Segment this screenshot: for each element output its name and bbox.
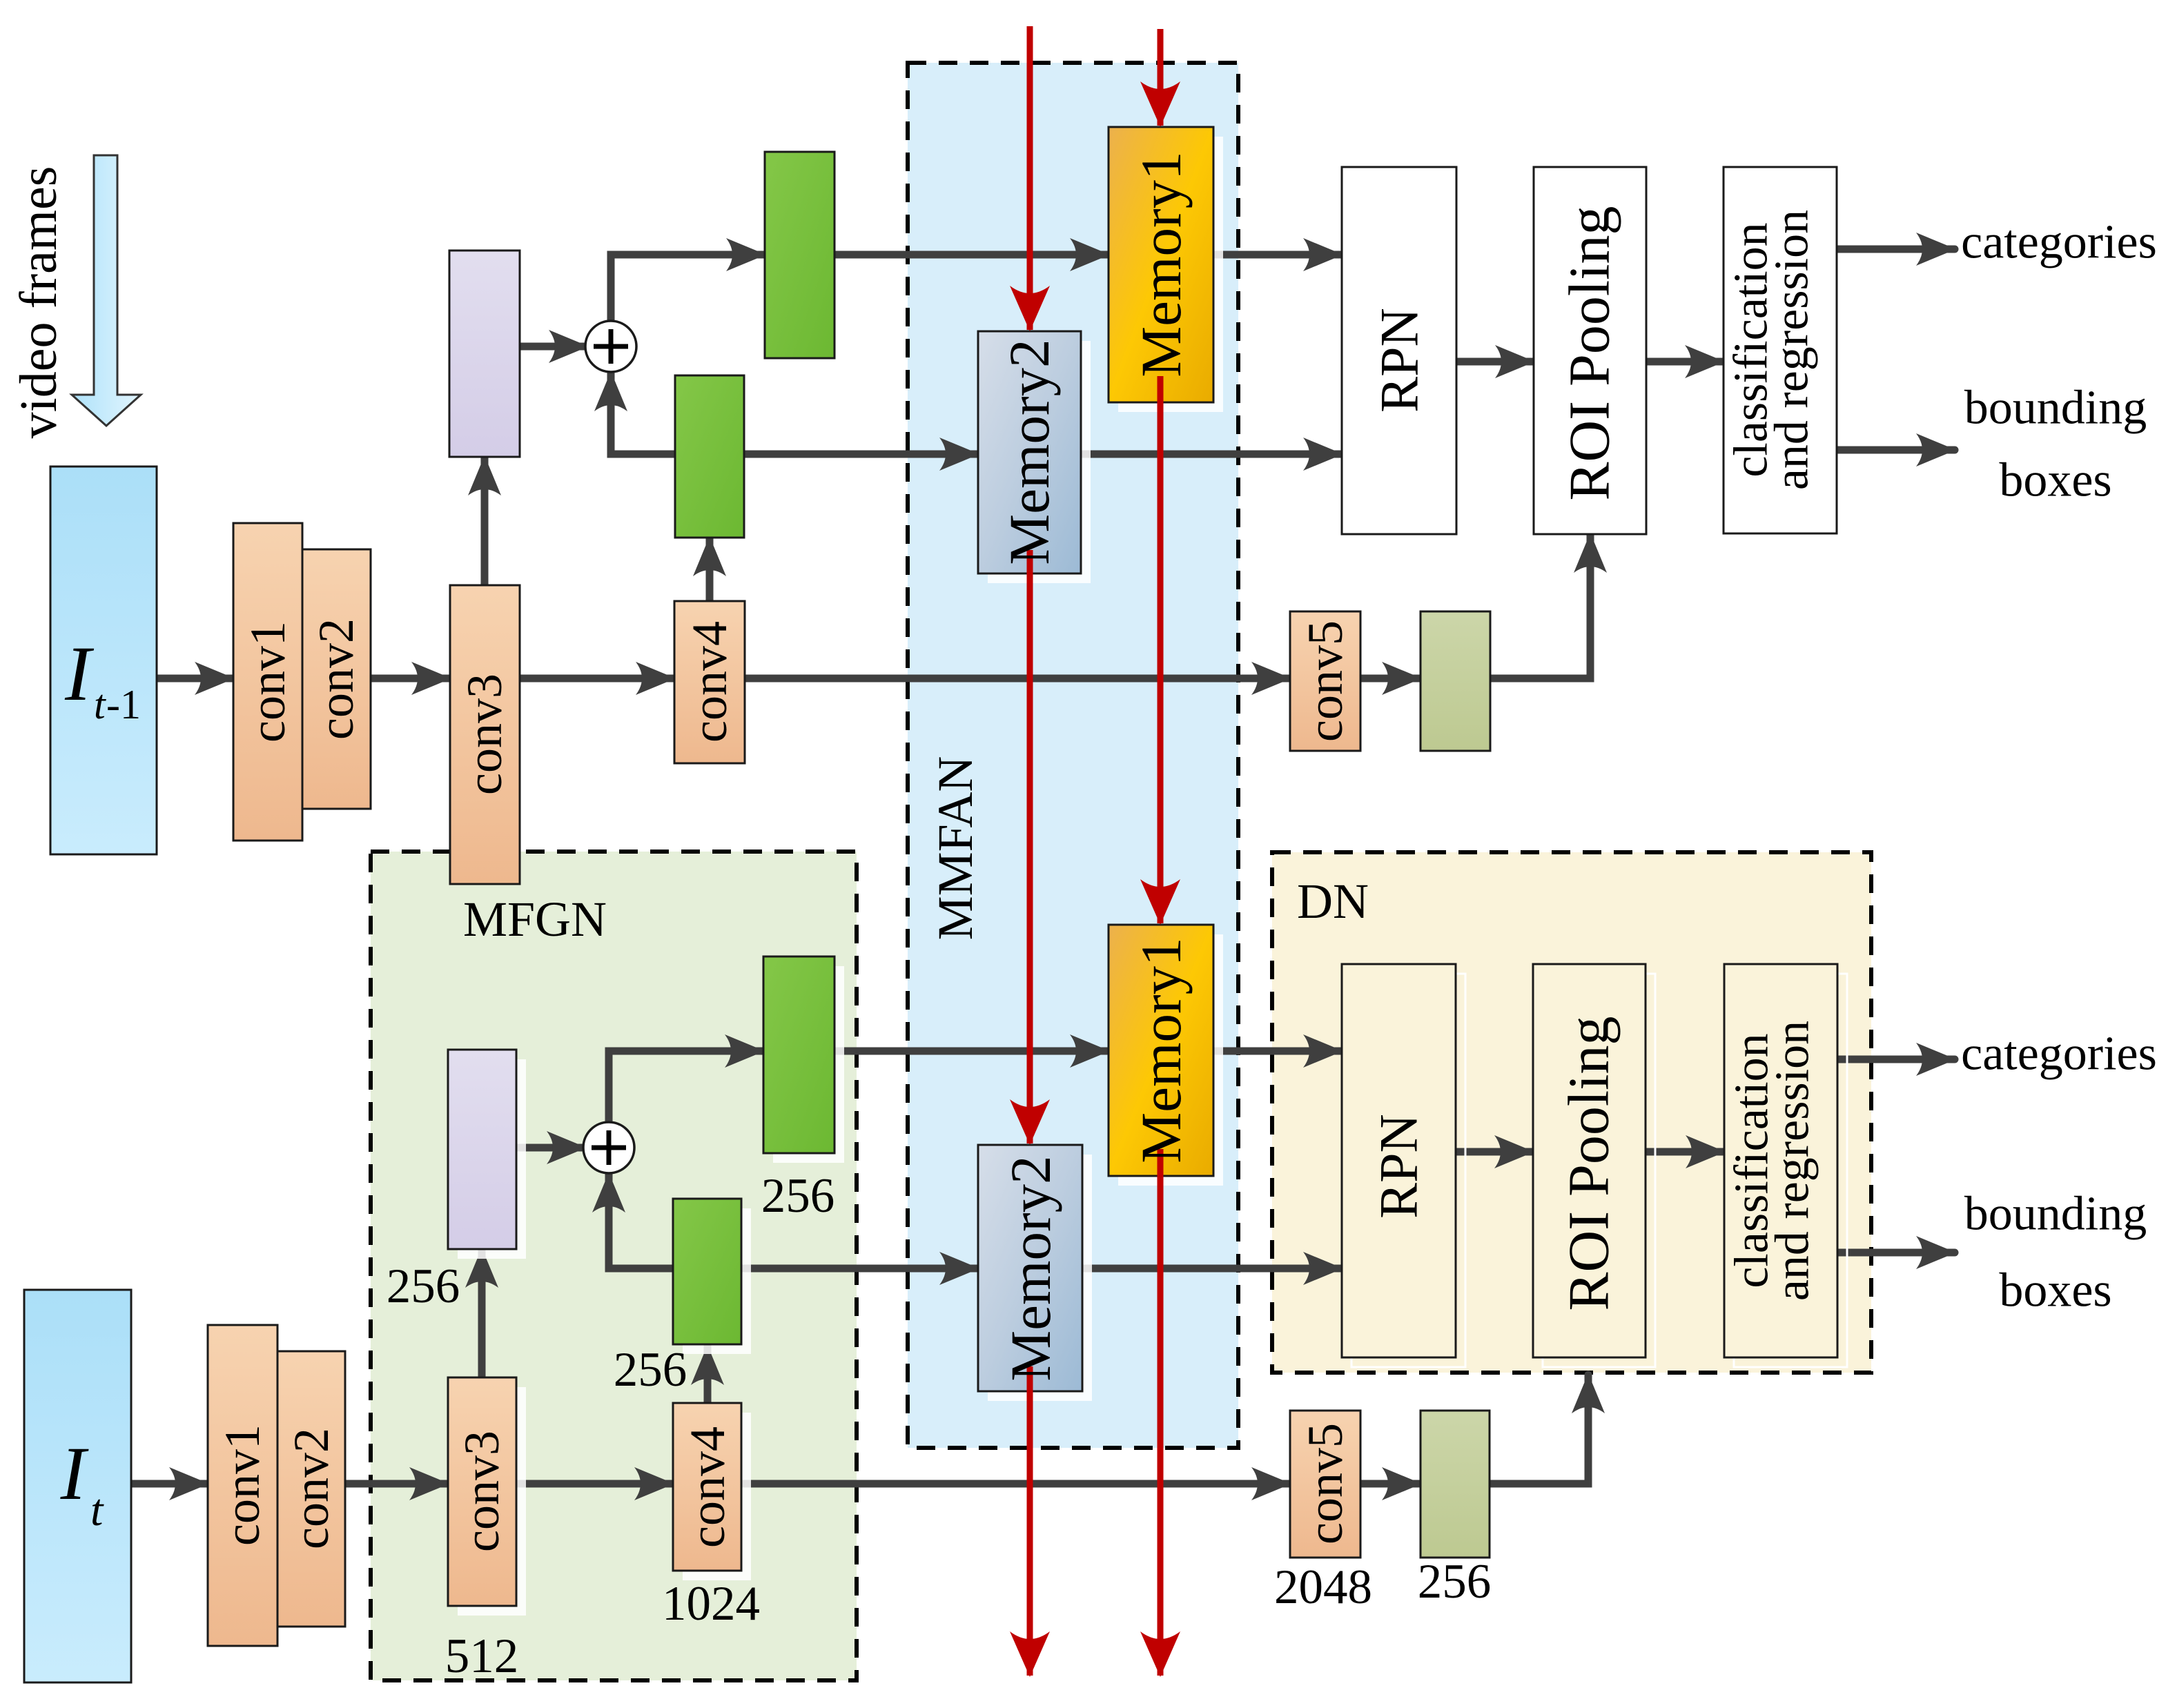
svg-text:DN: DN [1297, 874, 1369, 929]
svg-text:conv4: conv4 [682, 621, 737, 743]
wire green2 elbow up into plus bottom [609, 1174, 673, 1268]
wire classification to categories bottom [1837, 1056, 1955, 1063]
wire Memory2 to RPN top [1081, 451, 1342, 458]
box ROI Pooling top [1534, 167, 1646, 534]
wire plus elbow to green1 top [611, 255, 765, 322]
box ROI Pooling bottom [1533, 964, 1646, 1357]
box conv1 top [233, 523, 302, 841]
box Memory1 top [1109, 127, 1213, 402]
svg-text:512: 512 [445, 1629, 519, 1683]
plus circle bottom [583, 1122, 634, 1173]
wire conv4 to conv5 bottom [741, 1480, 1290, 1488]
wire ROI Pooling to classification bottom [1646, 1148, 1724, 1156]
svg-text:conv2: conv2 [284, 1428, 339, 1549]
box conv5 bottom [1290, 1411, 1360, 1558]
wire plus elbow to green1 bottom [609, 1051, 763, 1123]
plus circle top [585, 321, 636, 372]
svg-text:ROI Pooling: ROI Pooling [1558, 206, 1622, 500]
box I_t-1 [50, 467, 157, 854]
svg-text:conv3: conv3 [457, 674, 512, 795]
svg-text:MMFAN: MMFAN [928, 756, 983, 941]
wire lavender to plus bottom [516, 1144, 585, 1152]
video frames blue arrow [72, 155, 141, 426]
box green2 top [675, 375, 744, 538]
svg-text:conv1: conv1 [215, 1424, 270, 1546]
svg-text:conv4: conv4 [680, 1426, 735, 1548]
box conv3 top [450, 585, 520, 884]
wire conv3 up to lavender bottom [478, 1249, 486, 1377]
svg-text:boxes: boxes [1999, 1264, 2111, 1317]
wire olive elbow up to ROI Pooling top [1490, 534, 1590, 678]
svg-text:conv5: conv5 [1298, 620, 1353, 742]
wire lavender to plus top [520, 343, 587, 351]
wire Memory1 to RPN top [1213, 251, 1342, 259]
wire green2 elbow up into plus top [611, 373, 675, 454]
svg-text:256: 256 [761, 1169, 835, 1223]
svg-text:256: 256 [614, 1343, 687, 1397]
svg-text:256: 256 [1418, 1555, 1492, 1609]
box RPN bottom [1342, 964, 1456, 1357]
white echo green2 bottom [683, 1208, 751, 1354]
svg-text:-1: -1 [106, 682, 141, 727]
white echo lavender bottom [458, 1059, 526, 1259]
red line B segment 3 exit [1158, 1149, 1164, 1676]
box green1 top [765, 152, 834, 358]
box RPN top [1342, 167, 1456, 534]
svg-text:RPN: RPN [1369, 1114, 1429, 1219]
white echo conv3 bottom [458, 1387, 526, 1616]
box olive bottom [1421, 1411, 1490, 1558]
svg-text:conv1: conv1 [240, 621, 295, 743]
wire conv3 to conv4 top [520, 675, 674, 683]
svg-text:MFGN: MFGN [463, 892, 607, 947]
white echo conv4 bottom [683, 1413, 751, 1580]
wire conv2 to conv3 bottom [345, 1480, 448, 1488]
white echo Memory2 bottom [988, 1155, 1092, 1401]
white echo green1 bottom [773, 966, 844, 1163]
box olive top [1421, 611, 1490, 751]
svg-text:Memory2: Memory2 [999, 1155, 1062, 1381]
wire olive elbow up to DN bottom [1490, 1375, 1588, 1484]
svg-text:categories: categories [1961, 1028, 2157, 1081]
svg-text:2048: 2048 [1274, 1560, 1372, 1614]
svg-text:Memory2: Memory2 [997, 339, 1061, 565]
box green1 bottom [763, 956, 834, 1153]
wire green2 to Memory2 top [744, 451, 978, 458]
box Memory2 top [978, 331, 1081, 573]
svg-text:and regression: and regression [1766, 210, 1819, 490]
wire ROI Pooling to classification top [1646, 358, 1724, 366]
wire classification to bounding boxes bottom [1837, 1249, 1955, 1257]
red line A segment 1 into Memory2 top [1027, 26, 1033, 330]
wire Memory2 to RPN bottom [1082, 1265, 1342, 1273]
white echo RPN bottom [1351, 974, 1465, 1367]
box Memory1 bottom [1109, 925, 1213, 1176]
red line A segment 3 exit [1027, 1366, 1033, 1676]
wire classification to bounding boxes top [1837, 446, 1955, 454]
white echo Memory2 top [988, 341, 1091, 583]
region MFGN dashed box [371, 852, 857, 1680]
svg-text:conv5: conv5 [1298, 1423, 1353, 1544]
svg-text:t: t [94, 682, 106, 727]
box I_t [24, 1290, 131, 1682]
svg-text:RPN: RPN [1369, 308, 1429, 413]
box conv3 bottom [448, 1377, 516, 1606]
svg-text:ROI Pooling: ROI Pooling [1557, 1016, 1621, 1311]
wire conv4 up to green2 top [706, 538, 714, 601]
svg-text:boxes: boxes [1999, 454, 2111, 507]
box conv1 bottom [208, 1325, 277, 1646]
wire green1 to Memory1 bottom [834, 1048, 1109, 1055]
box conv2 bottom [277, 1351, 345, 1627]
red line B segment 2 into Memory1 bottom [1158, 376, 1164, 923]
svg-text:I: I [60, 1431, 89, 1515]
wire RPN to ROI Pooling bottom [1456, 1148, 1533, 1156]
svg-text:Memory1: Memory1 [1129, 937, 1193, 1163]
wire Memory1 to RPN bottom [1213, 1048, 1342, 1055]
svg-text:256: 256 [387, 1259, 460, 1313]
wire RPN to ROI Pooling top [1456, 358, 1534, 366]
box classification top [1724, 167, 1837, 533]
wire conv4 up to green2 bottom [704, 1346, 712, 1403]
white echo Memory1 top [1118, 137, 1223, 412]
box conv5 top [1290, 611, 1360, 751]
region MMFAN dashed box [908, 63, 1238, 1448]
box classification bottom [1724, 964, 1837, 1357]
box lavender top [449, 251, 520, 457]
svg-text:bounding: bounding [1964, 1188, 2147, 1241]
box conv4 top [674, 601, 745, 763]
svg-text:1024: 1024 [662, 1577, 760, 1631]
wire conv3 up to lavender top [481, 457, 489, 585]
svg-text:video frames: video frames [10, 166, 68, 439]
box conv4 bottom [673, 1403, 741, 1571]
red line A segment 2 into Memory2 bottom [1027, 550, 1033, 1143]
svg-text:and regression: and regression [1766, 1021, 1819, 1301]
white echo ROI bottom [1543, 974, 1655, 1367]
wire conv2 to conv3 top [371, 675, 450, 683]
white echo Memory1 bottom [1118, 934, 1223, 1186]
region DN dashed box [1272, 852, 1871, 1373]
box conv2 top [302, 549, 371, 809]
wire I_t-1 to conv1 [157, 675, 233, 683]
wire conv4 to conv5 top [745, 675, 1290, 683]
wire conv5 to olive box top [1360, 675, 1421, 683]
red line B segment 1 into Memory1 top [1158, 29, 1164, 126]
svg-text:bounding: bounding [1964, 382, 2147, 435]
svg-text:categories: categories [1961, 216, 2157, 269]
svg-text:conv2: conv2 [309, 618, 364, 740]
wire green1 to Memory1 top [834, 251, 1109, 259]
svg-text:Memory1: Memory1 [1129, 151, 1193, 377]
svg-text:conv3: conv3 [454, 1431, 509, 1552]
svg-text:I: I [64, 631, 95, 717]
white echo classification bottom [1734, 974, 1847, 1367]
svg-text:t: t [90, 1485, 104, 1535]
wire I_t to conv1 bottom [131, 1480, 208, 1488]
box Memory2 bottom [978, 1145, 1082, 1391]
wire green2 to Memory2 bottom [741, 1265, 978, 1273]
wire conv3 to conv4 bottom [516, 1480, 673, 1488]
box lavender bottom [448, 1050, 516, 1249]
wire classification to categories top [1837, 246, 1955, 253]
box green2 bottom [673, 1199, 741, 1344]
wire conv5 to olive box bottom [1360, 1480, 1421, 1488]
